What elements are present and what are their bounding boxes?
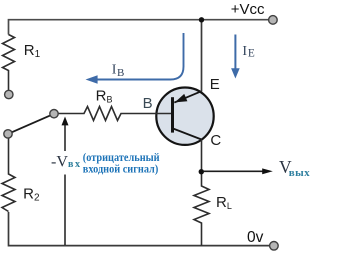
svg-text:вых: вых: [289, 167, 310, 179]
svg-text:-V: -V: [51, 153, 68, 170]
svg-text:B: B: [143, 95, 153, 112]
svg-text:E: E: [210, 76, 220, 93]
svg-text:входной сигнал): входной сигнал): [83, 163, 159, 176]
svg-text:C: C: [210, 132, 221, 149]
svg-text:0v: 0v: [247, 229, 264, 246]
svg-text:вх: вх: [68, 159, 82, 170]
svg-text:+Vcc: +Vcc: [231, 1, 265, 18]
